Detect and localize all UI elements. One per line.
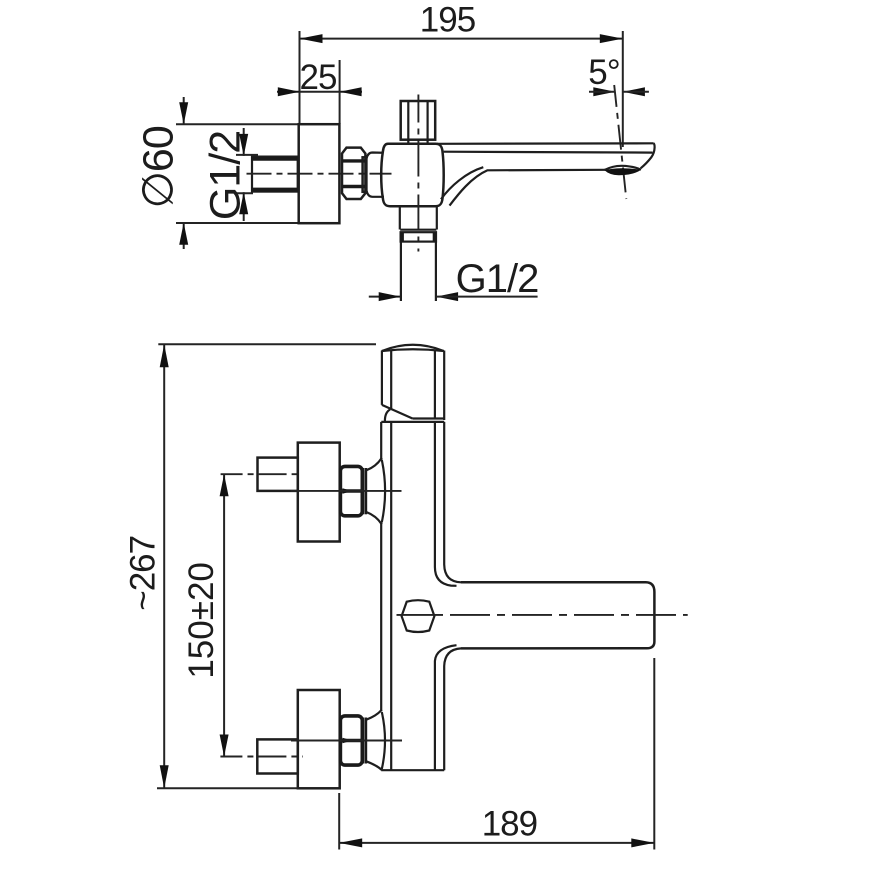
handle inner left line: [390, 350, 392, 410]
svg-text:150±20: 150±20: [182, 562, 221, 679]
dimension 5deg right shaft: [623, 91, 649, 93]
washer ring: [363, 157, 367, 192]
svg-text:∅60: ∅60: [135, 126, 183, 208]
dimension 25 left shaft: [277, 91, 300, 93]
bottom nut axis line: [291, 740, 402, 742]
dimension 195 line: [300, 38, 623, 40]
extension line spout end: [622, 31, 624, 147]
dia60 lower arrow: [179, 223, 188, 245]
top union nut: [340, 466, 362, 515]
body inner left line: [390, 422, 392, 770]
handle inner right line: [434, 350, 436, 419]
dimension G1/2 outlet left arrow: [379, 292, 401, 301]
svg-text:G1/2: G1/2: [202, 131, 250, 220]
wall flange: [299, 124, 340, 223]
bottom wall flange: [298, 690, 340, 788]
dimension 25 right shaft: [340, 91, 362, 93]
bottom washer: [362, 718, 365, 764]
bottom bell flare: [366, 710, 382, 720]
dia60 extension bottom: [176, 222, 299, 224]
handle bottom edge: [413, 417, 445, 419]
spout end face: [641, 143, 655, 168]
spout under curve outer: [450, 170, 606, 206]
dim 189 left extension: [338, 793, 340, 850]
handle diagonal (5 deg lever): [382, 405, 413, 419]
dim 150+-20 line: [223, 474, 225, 756]
bottom nipple axis centerline: [220, 756, 303, 758]
dimension G1/2 outlet right line: [436, 296, 537, 298]
dim ~267 bottom extension: [157, 787, 298, 789]
G1/2 wall extension ticks: [236, 154, 258, 156]
dim ~267 bottom arrow: [160, 765, 169, 788]
handle axis centerline: [417, 95, 419, 252]
svg-text:189: 189: [482, 805, 537, 844]
bottom union nut: [340, 716, 362, 765]
top nipple axis centerline: [221, 473, 302, 475]
dia60 dim line lower: [183, 223, 185, 249]
outlet stem: [399, 206, 401, 229]
body right edge lower + curve from spout bottom: [444, 648, 461, 770]
dim 189 line: [339, 842, 654, 844]
collar ring: [400, 229, 436, 231]
spout top line: [437, 142, 653, 145]
dimension G1/2 outlet left shaft: [369, 296, 401, 298]
dia60 upper arrow: [179, 102, 188, 124]
dimension 5deg right arrow: [623, 87, 645, 96]
dim 150+-20 top arrow: [220, 474, 229, 496]
dim ~267 top extension: [158, 343, 376, 345]
G1/2 wall dim line upper: [243, 128, 245, 156]
body bottom line: [381, 769, 444, 771]
dim 189 right extension: [653, 658, 655, 850]
extension line flange right: [339, 60, 341, 124]
nipple axis centerline: [247, 173, 392, 175]
svg-text:25: 25: [300, 58, 337, 97]
svg-text:~267: ~267: [123, 536, 162, 611]
spout (front view) outline: [461, 582, 654, 648]
top nut axis line: [291, 490, 402, 492]
hex nut (side view): [342, 148, 365, 199]
dimension G1/2 outlet right arrow: [436, 292, 458, 301]
top union nipple: [258, 458, 298, 491]
mixer body (side): [381, 144, 444, 206]
bottom union nipple: [257, 739, 298, 773]
handle dome top arc: [382, 345, 444, 351]
spout under curve inner: [441, 167, 483, 199]
dimension 25 left arrow: [278, 87, 300, 96]
body inner right line upper + curve into spout: [435, 422, 457, 586]
top washer: [362, 468, 365, 514]
body inner right line lower + curve from spout: [435, 645, 457, 770]
top wall flange: [298, 443, 340, 542]
handle left edge: [381, 351, 383, 405]
svg-text:195: 195: [420, 1, 475, 40]
svg-text:G1/2: G1/2: [456, 257, 539, 301]
body top line: [381, 421, 444, 423]
spout axis centerline: [438, 614, 688, 616]
body shoulder arc under handle: [385, 409, 390, 421]
dim 189 right arrow: [631, 838, 654, 847]
dim ~267 line: [163, 344, 165, 788]
neck to body: [367, 153, 383, 159]
body left edge mid segment: [380, 522, 382, 710]
aerator mouth lens: [605, 166, 642, 170]
spout axis solid part: [397, 614, 439, 616]
G1/2 wall upper arrow: [239, 134, 248, 156]
dim 150+-20 bottom arrow: [220, 735, 229, 757]
handle knob (side): [401, 101, 436, 140]
body right edge upper + curve into spout top: [444, 422, 461, 582]
dimension 25 right arrow: [340, 87, 362, 96]
dimension 5deg left shaft: [589, 91, 615, 93]
5deg tilted axis: [614, 85, 626, 199]
dim ~267 top arrow: [160, 344, 169, 367]
G1/2 wall lower arrow: [239, 192, 248, 214]
dimension 195 left arrow: [300, 34, 323, 43]
dimension 5deg left arrow: [593, 87, 615, 96]
handle dome lower arc: [382, 349, 444, 351]
aerator hex cap (front): [402, 600, 435, 632]
body left edge upper segment: [380, 422, 382, 460]
G1/2 wall dim line lower: [243, 192, 245, 221]
spout second line: [444, 151, 653, 154]
dimension 195 right arrow: [600, 34, 623, 43]
dia60 extension top: [176, 123, 299, 125]
handle right edge: [443, 351, 445, 421]
dimension 25 line: [300, 91, 340, 93]
top bell flare: [366, 458, 382, 471]
extension line left (wall face): [299, 31, 301, 124]
wall nipple: [252, 157, 298, 192]
dim 189 left arrow: [339, 838, 362, 847]
dia60 dim line upper: [183, 97, 185, 124]
outlet pipe: [400, 242, 402, 301]
